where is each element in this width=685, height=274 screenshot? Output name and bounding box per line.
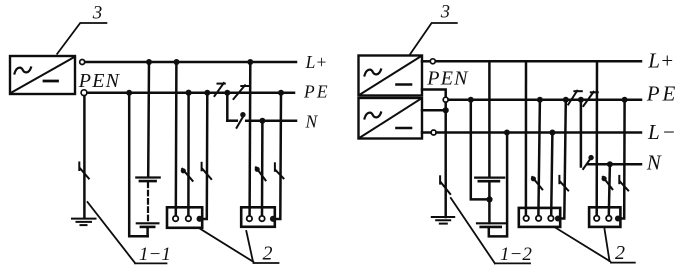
wire L+ bus (left): [85, 61, 296, 64]
wire bottom box to L- terminal: [422, 131, 431, 134]
junction on PE at equipment 2 PE wire (left): [278, 90, 284, 96]
svg-text:L+: L+: [647, 48, 674, 72]
equipment box 3 (right): [519, 208, 560, 227]
junction on PE at N tap (right): [578, 97, 584, 103]
junction on N at equipment 4: [607, 161, 613, 167]
svg-text:1−2: 1−2: [500, 244, 532, 265]
wire bottom box plus to midpoint: [422, 109, 444, 112]
junction on L- at equipment 3: [549, 130, 555, 136]
link (disconnectable) on PE bus, first: [215, 83, 225, 96]
junction on L+ at battery (left): [146, 59, 152, 65]
wire battery positive lead (left, from L+): [147, 62, 150, 177]
wire N bus start segment (left): [227, 119, 237, 122]
link on earthing conductor (right): [440, 176, 450, 194]
leader 2 (left): [199, 228, 278, 263]
breaker (dot blade) on equipment 1 pole wire: [181, 168, 193, 181]
wire battery negative lead (left, from PE): [129, 93, 147, 237]
terminal PEN/PE mid (right): [443, 97, 448, 102]
junction on PE at battery tap (right): [468, 97, 474, 103]
junction on PE at N tap (left): [224, 90, 230, 96]
svg-text:N: N: [646, 150, 662, 174]
breaker (dot blade) on equipment 4 N wire: [602, 176, 613, 189]
junction on PE at equipment 3 pole wire: [537, 97, 543, 103]
switch pivot dot on N (right): [588, 155, 593, 160]
link on PE bus second (right): [583, 92, 597, 106]
svg-text:3: 3: [92, 3, 103, 24]
equipment 3 terminal c: [548, 216, 553, 221]
wire L+ to equipment 4: [595, 61, 598, 215]
equipment 1 terminal b: [186, 216, 191, 221]
svg-text:PEN: PEN: [78, 70, 121, 92]
switch pivot dot on N (left): [240, 112, 245, 117]
breaker (dot blade) on equipment 3 pole wire: [531, 176, 542, 189]
converter 3 (AC/DC) box: [10, 56, 75, 94]
wire PE pole to equipment 3: [538, 100, 540, 215]
equipment 2 terminal a: [247, 216, 252, 221]
wire top box minus to mid terminal: [422, 90, 446, 97]
label 3 leader: [57, 23, 106, 54]
wire PE conductor to equipment 3: [561, 100, 566, 219]
wire PE conductor to equipment 1: [203, 93, 208, 219]
link on PE bus first (right): [568, 91, 582, 105]
wire battery bottom lead to L- (right): [489, 133, 507, 237]
wire N drop from PE (right): [580, 100, 583, 167]
svg-text:N: N: [305, 111, 319, 131]
equipment box 2 (left): [241, 207, 275, 227]
ground (left, earth electrode): [72, 219, 96, 226]
terminal L+ (right): [430, 59, 435, 64]
wire battery top lead from L+ (right): [488, 61, 491, 177]
wire L- to equipment 3: [551, 133, 552, 216]
wire battery mid section (right): [488, 182, 491, 223]
equipment box 1 (left): [167, 207, 202, 228]
link on equipment 4 PE conductor: [619, 176, 628, 191]
label 3 leader (right): [410, 23, 457, 55]
wire PE bus (left): [88, 91, 295, 94]
wire L+ to equipment 2: [248, 62, 251, 215]
svg-text:3: 3: [440, 3, 450, 23]
junction on PE at equipment 3 PE wire: [563, 97, 569, 103]
junction on PE at battery (left): [126, 90, 132, 96]
wire L+ to equipment 1: [175, 62, 178, 215]
battery GB1 cell (right upper): [475, 178, 504, 182]
equipment 4 terminal PE (filled): [615, 216, 621, 222]
equipment 2 terminal b: [259, 216, 264, 221]
battery GB cell top: [136, 178, 159, 182]
svg-text:1−1: 1−1: [139, 244, 171, 265]
wire earthing conductor (left): [83, 96, 86, 218]
junction on N at equipment 2: [259, 118, 265, 124]
equipment 3 terminal b: [536, 216, 541, 221]
junction battery midpoint: [486, 196, 492, 202]
link on equipment 3 PE conductor: [559, 176, 568, 191]
svg-text:L−: L−: [647, 120, 678, 144]
junction on PE at equipment 1 PE wire (left): [204, 90, 210, 96]
link (disconnectable) on PE bus, second: [234, 85, 249, 99]
junction midpoint (right): [443, 107, 449, 113]
link on equipment 1 PE conductor: [202, 163, 212, 179]
switch blade on N (right): [583, 157, 591, 169]
leader 2 (right): [555, 228, 635, 263]
wire N bus (right): [588, 163, 641, 166]
wire battery bottom lead: [146, 228, 149, 237]
link on equipment 2 PE conductor: [275, 163, 284, 178]
wire N drop from PE (left): [226, 93, 229, 121]
equipment 4 terminal a: [594, 216, 599, 221]
wire L+ to equipment 3: [525, 61, 528, 215]
terminal (PEN output, left): [81, 90, 87, 96]
wire N to equipment 4: [609, 164, 610, 215]
wire PE pole to equipment 1: [187, 93, 190, 216]
svg-text:PE: PE: [646, 81, 679, 105]
junction on PE at equipment 4 PE wire: [622, 97, 628, 103]
leader 1-1: [88, 202, 167, 263]
svg-text:L+: L+: [305, 52, 328, 72]
ground (right, earth electrode): [432, 217, 454, 224]
wire N to equipment 2: [261, 121, 264, 216]
svg-text:2: 2: [615, 242, 625, 264]
equipment 3 terminal PE (filled): [555, 216, 561, 222]
wire PE bus (right): [449, 98, 642, 101]
junction on L+ at equipment 2 (left): [247, 59, 253, 65]
junction on L+ at equipment 1 (left): [174, 59, 180, 65]
converter bottom box (right): [359, 98, 423, 139]
wire battery dashed (cells omitted): [147, 183, 149, 222]
equipment box 4 (right): [589, 207, 620, 227]
equipment 4 terminal b: [606, 216, 611, 221]
wire L- bus (right): [436, 131, 641, 134]
leader 1-2: [451, 198, 530, 263]
switch blade on N (left): [237, 115, 245, 128]
equipment 1 terminal PE (filled): [197, 216, 203, 222]
equipment 1 terminal a: [173, 216, 178, 221]
wire L+ bus (right): [436, 60, 641, 63]
svg-text:PEN: PEN: [426, 67, 469, 89]
battery GB2 cell (right lower): [477, 223, 506, 227]
junction on PE at equipment 1 wire (left): [186, 90, 192, 96]
wire top box to L+ terminal: [422, 60, 430, 63]
wire N bus (left): [246, 119, 296, 122]
equipment 3 terminal a: [524, 216, 529, 221]
svg-text:PE: PE: [303, 82, 330, 102]
wire PE conductor to equipment 2: [276, 93, 281, 219]
equipment 2 terminal PE (filled): [270, 216, 276, 222]
breaker (dot blade) on equipment 2 N wire: [255, 167, 266, 181]
svg-text:2: 2: [263, 243, 273, 265]
battery GB cell bottom: [137, 223, 159, 227]
link on earthing conductor (left): [79, 163, 89, 179]
wire PE conductor to equipment 4: [621, 100, 625, 219]
wire battery mid lead from PE (right): [471, 100, 487, 200]
terminal (L+ output, left): [80, 60, 85, 65]
wire earthing conductor (right): [444, 103, 447, 218]
junction on L- at battery bottom: [504, 130, 510, 136]
terminal L- (right): [431, 130, 436, 135]
converter 3 top box (right): [359, 56, 423, 96]
